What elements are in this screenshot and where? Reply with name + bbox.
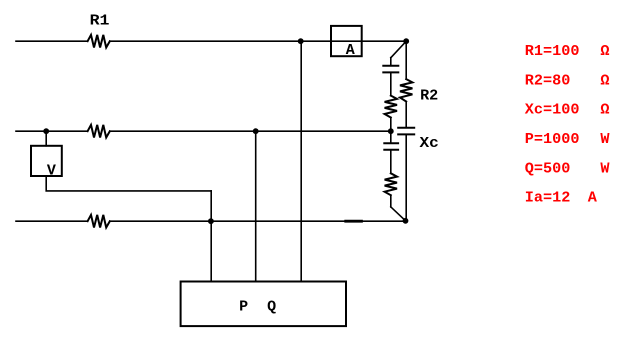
node: branch A on L2 [388,128,394,134]
svg-text:A: A [346,42,355,59]
wire: branch B between R2 and Xc [405,102,407,127]
node N1: L1 right end [403,38,409,44]
svg-text:Xc=100: Xc=100 [525,101,580,119]
svg-text:Ω: Ω [600,42,609,60]
wire: branch A from L2 junction down [390,131,392,142]
svg-text:Ω: Ω [600,101,609,119]
resistor on bus L3 [88,215,110,228]
wire: phase bus L3 right segment [110,220,406,222]
svg-text:R1=100: R1=100 [525,42,580,60]
wire: branch B upper lead from node N1 [405,41,407,79]
svg-text:Ia=12: Ia=12 [525,189,571,207]
capacitor C1 (branch A upper) [383,66,398,73]
svg-text:W: W [600,159,610,177]
wire: phase bus L2 right segment [110,130,391,132]
svg-text:Ω: Ω [600,71,609,89]
svg-text:R1: R1 [90,12,110,29]
wire: branch B lower lead to node N2 [405,135,407,220]
wire: phase bus L1 right segment [110,40,406,42]
capacitor C2 (branch A lower) [384,143,398,150]
node: L2 tap to voltmeter [43,128,49,134]
wire: branch A between C2 and lower resistor [390,151,392,174]
svg-text:P: P [239,299,248,316]
svg-text:P=1000: P=1000 [525,130,580,148]
wire: L2 tap down to voltmeter V top [45,131,47,146]
svg-text:R2: R2 [420,88,438,105]
ammeter A box [331,26,362,56]
node N2: L3 right end [403,218,409,224]
wire: drop from voltmeter/L3 to wattmeter box [210,191,212,282]
svg-text:V: V [47,163,56,180]
wire: thick overlap segment on bus L3 [346,220,362,223]
wire: branch A upper lead [390,58,392,65]
wire: phase bus L1 left segment [16,40,88,42]
wire: phase bus L3 left segment [16,220,88,222]
svg-text:A: A [588,189,598,207]
wire: phase bus L2 left segment [16,130,88,132]
svg-text:R2=80: R2=80 [525,71,571,89]
node: L1 drop junction [298,38,304,44]
wire: drop from L2 to wattmeter box [255,131,257,281]
voltmeter V box [31,146,62,176]
wire: branch A between C1 and resistor [390,73,392,95]
resistor on bus L2 [88,125,110,138]
resistor R1 (on bus L1) [88,35,110,48]
wire: branch A bottom lead [390,195,392,207]
wire: voltmeter V bottom to L3 drop [46,176,211,191]
wire: diagonal from node N1 to RC branch A [391,41,406,58]
svg-text:Q: Q [267,299,276,316]
wire: drop from L1 to wattmeter box [300,41,302,281]
wire: diagonal from branch A to node N2 [391,207,406,221]
resistor (branch A lower) [385,173,397,195]
capacitor Xc (branch B) [398,128,414,135]
wattmeter P,Q box [181,282,346,327]
svg-text:Q=500: Q=500 [525,159,571,177]
resistor (branch A upper) [385,96,397,118]
wire: branch A into L2 junction [390,118,392,132]
node: L3 drop junction [208,218,214,224]
resistor R2 (branch B) [400,79,412,101]
svg-text:W: W [600,130,610,148]
node: L2 drop junction [253,128,259,134]
svg-text:Xc: Xc [420,135,439,152]
